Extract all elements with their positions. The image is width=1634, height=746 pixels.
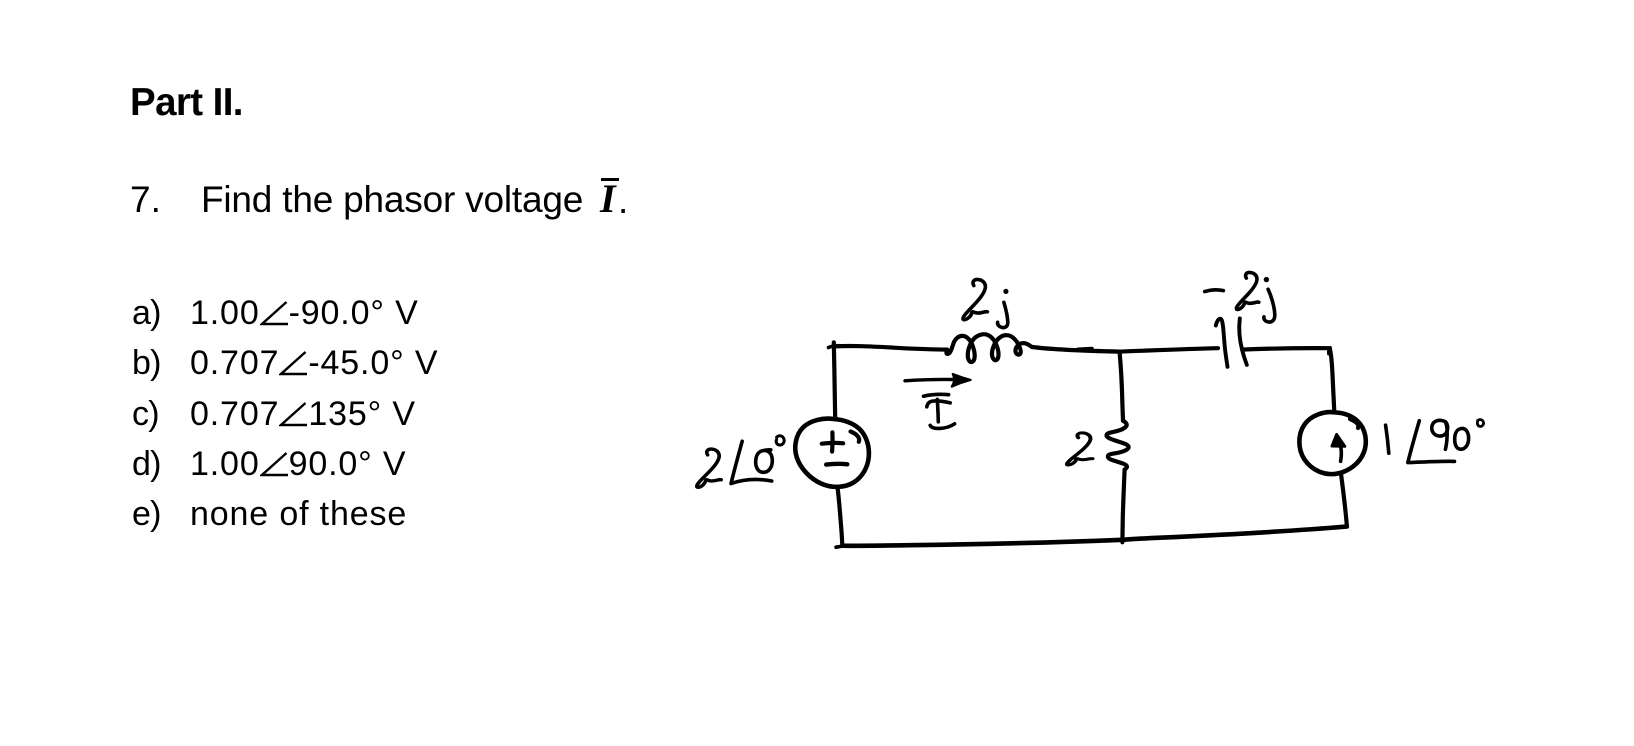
capacitor C plates (-2j)	[1216, 318, 1247, 366]
voltage source + sign	[822, 432, 843, 451]
option d	[132, 447, 161, 481]
wire top-left down to voltage source	[834, 342, 835, 419]
heading "Part II."	[130, 84, 243, 123]
phasor I with overbar	[600, 179, 616, 219]
handwritten phasor I label (I with overbar)	[924, 394, 955, 428]
wire junction to capacitor	[1120, 348, 1219, 351]
option a	[132, 296, 161, 330]
current arrow for phasor I	[905, 374, 971, 387]
wire top-left corner tick	[829, 346, 841, 348]
corner tick top-right	[1328, 348, 1330, 354]
current source I1 circle	[1299, 412, 1365, 474]
bottom wire	[842, 527, 1347, 546]
resistor R (2 ohm) squiggle	[1107, 421, 1129, 470]
option e	[132, 497, 161, 531]
label -2j (capacitor value)	[1205, 272, 1275, 322]
question line	[130, 181, 161, 218]
current source arrow (up)	[1332, 435, 1345, 462]
label 1∠90° (current source value)	[1386, 420, 1484, 463]
voltage source V1 circle	[795, 419, 869, 487]
wire middle junction down to resistor	[1120, 352, 1124, 421]
wire inductor to middle junction	[1032, 347, 1120, 352]
wire resistor down to bottom	[1122, 470, 1124, 543]
label 2∠0° (voltage source value)	[697, 436, 784, 487]
wire top left segment	[834, 346, 947, 350]
option b	[132, 346, 161, 380]
option c	[132, 397, 159, 431]
inductor 2j coil	[946, 334, 1032, 362]
wire below current source	[1341, 474, 1347, 527]
label 2 (resistor value)	[1067, 433, 1093, 465]
wire voltage source to bottom-left corner	[837, 487, 842, 546]
label 2j (inductor value)	[963, 279, 1009, 327]
bottom-left corner tick	[836, 546, 846, 548]
voltage source - sign	[826, 462, 847, 467]
wire overlap dash near junction	[1078, 347, 1092, 351]
wire capacitor to top-right corner and drop	[1244, 348, 1334, 412]
